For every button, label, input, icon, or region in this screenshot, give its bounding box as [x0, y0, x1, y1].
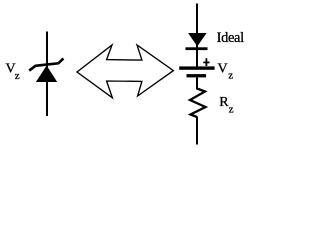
svg-text:Ideal: Ideal: [217, 30, 245, 46]
svg-text:V: V: [218, 61, 228, 76]
svg-text:z: z: [15, 70, 20, 82]
svg-text:z: z: [228, 70, 233, 82]
svg-text:z: z: [229, 104, 234, 116]
